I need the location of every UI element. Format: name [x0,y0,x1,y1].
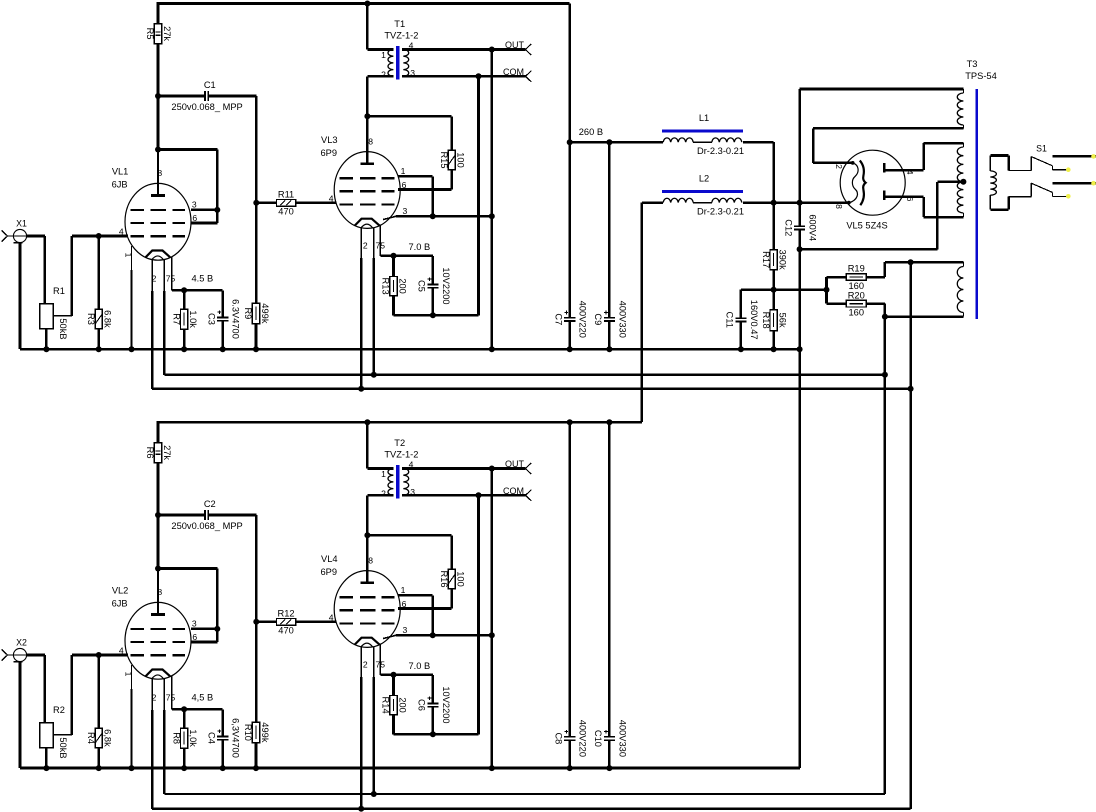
wire HV center tap stub [937,181,963,184]
junction C1/R11 [253,200,259,206]
tube VL3 label [321,135,338,158]
svg-text:R19: R19 [848,264,865,274]
wire R16 bottom to pin 6 [398,589,452,609]
wire 5V winding top to B+ node [800,89,964,203]
wire HV center tap return [800,182,938,250]
svg-text:VL1: VL1 [112,167,129,177]
junction R18-ground [771,346,777,352]
wire COM vertical to cathode return [477,495,480,734]
inductor L2 winding [663,198,742,202]
svg-text:400V330: 400V330 [617,720,627,757]
wire COM [402,494,526,497]
wire R3 bottom lead [97,329,100,349]
junction R6/C2 [155,512,161,518]
capacitor C6 10V2200 [417,686,451,723]
svg-text:250v0.068_ MPP: 250v0.068_ MPP [171,521,242,531]
transformer T3 HV winding upper [957,143,963,182]
wire C11 bottom lead [740,321,743,349]
svg-text:VL2: VL2 [112,586,129,596]
junction pin3 strap [214,626,220,632]
junction anode/screen feed [364,532,370,538]
junction pin3 strap [214,207,220,213]
tube VL4 label [321,554,338,577]
wire X2 to volume pot [27,654,45,657]
wire R7 bottom lead [183,329,186,349]
junction VL5 pin 8 [847,201,851,205]
wire bias divider node [741,288,827,291]
wire B+ top rail [157,2,570,5]
wire VL1 heater pin 2 [152,260,911,389]
svg-text:6.3V4700: 6.3V4700 [231,299,241,339]
svg-text:4: 4 [329,613,334,623]
wire tube pin 3 [191,628,217,631]
junction channel2 rail / C8 [567,419,573,425]
wire C2 right lead [208,515,256,622]
inductor L2 labels [697,174,744,217]
junction pin1/pin3 [430,632,436,638]
svg-text:X2: X2 [16,638,27,648]
wire X1 to volume pot [27,235,45,238]
svg-text:2: 2 [363,660,368,670]
tube VL3 grids [340,178,395,204]
svg-text:3: 3 [403,206,408,216]
junction heater A top channel [882,372,888,378]
svg-text:260 В: 260 В [579,127,603,137]
wire hum-balance bracket [827,277,847,304]
svg-text:C1: C1 [204,80,216,90]
wire mains line 1 [1052,155,1096,158]
junction heater pin7 [371,791,377,797]
resistor R17 390k [761,250,788,271]
junction C3-ground [220,346,226,352]
junction C5 bottom [430,312,436,318]
wire R8 bottom lead [183,748,186,768]
junction C6 bottom [430,731,436,737]
resistor R11 470 [277,189,296,216]
tube VL4 heater [355,638,380,645]
wire R6 top lead [157,422,160,442]
wire mains line 2 [1052,182,1096,185]
svg-text:1.0k: 1.0k [188,310,198,328]
svg-text:470: 470 [278,207,294,217]
svg-text:T3: T3 [967,59,978,69]
wire VL2 pin 1 shield to ground [131,665,133,768]
wire T1 pin 1 to B+ rail [367,4,393,50]
junction R3-ground [96,346,102,352]
junction cathode/R8 [181,706,187,712]
capacitor C4 6,3V4700 [206,718,240,758]
svg-text:1,0k: 1,0k [188,729,198,747]
transformer T3 primary winding [990,156,996,210]
svg-text:160V0.47: 160V0.47 [749,300,759,340]
contact dot pole 2 [1066,194,1071,199]
capacitor C8 400V220 [554,720,588,757]
junction C10-ground [606,765,612,771]
transformer T3 6.3V winding [957,262,963,316]
svg-text:6,8k: 6,8k [103,729,113,747]
svg-text:OUT: OUT [505,40,525,50]
svg-text:8: 8 [834,204,844,209]
junction heater pin2 [358,806,364,812]
connector COM [503,486,531,501]
wire VL5 pin 2 to 5V winding [813,128,963,163]
svg-text:X1: X1 [16,219,27,229]
wire pot bottom to ground bus [45,748,48,768]
resistor R15 100 [439,150,466,170]
potentiometer R1 50kB [40,286,68,339]
wire C5 bottom lead [432,288,435,316]
junction rail/T1 [364,1,370,7]
capacitor C1 250v0.068_ MPP [171,80,242,112]
junction pin3/OUT line [489,632,495,638]
junction cathode/R13 [391,253,397,259]
svg-text:L2: L2 [699,174,709,184]
wire R14 top lead [392,675,395,696]
wire VL1 pin 1 shield to ground [131,246,133,349]
svg-text:1: 1 [401,585,406,595]
junction bracket mid [824,287,830,293]
svg-text:TPS-54: TPS-54 [965,71,997,81]
svg-text:R17: R17 [761,251,771,268]
wire R12 right lead to VL4 pin 4 [296,621,337,624]
junction COM [476,492,482,498]
junction pin3/OUT line [489,213,495,219]
resistor R13 200 [381,277,408,296]
svg-text:C12: C12 [783,219,793,236]
wire T2 pin 1 to B+ rail [367,422,393,468]
svg-text:4: 4 [329,194,334,204]
svg-text:6: 6 [192,213,197,223]
wire pin 1 strap [398,176,433,216]
wire C10 bottom lead [608,740,611,768]
junction C8-ground [567,765,573,771]
wire tube pin 6 [191,641,217,644]
svg-text:27k: 27k [162,26,172,41]
svg-text:400V220: 400V220 [578,301,588,338]
tube VL2 envelope [125,602,191,679]
svg-text:R5: R5 [145,28,155,40]
wire R10 top lead [255,622,258,722]
junction R9-ground [253,346,259,352]
svg-text:C2: C2 [204,499,216,509]
junction R5/C1 [155,93,161,99]
junction pin1-ground [129,765,135,771]
resistor R3 6.8k [86,309,113,329]
wire R13 top lead [392,256,395,277]
wire screen feed to R16 [367,535,451,569]
junction R7-ground [181,346,187,352]
svg-text:75: 75 [166,693,176,703]
tube VL5 anode 2 [884,190,923,200]
junction anode node [155,566,161,572]
junction OUT [489,47,495,53]
svg-text:7.0 В: 7.0 В [408,242,430,252]
svg-text:C7: C7 [554,313,564,325]
transformer T3 label [965,59,997,81]
wire VL4 heater pin 2 [360,647,362,809]
svg-text:R20: R20 [848,290,865,300]
wire OUT vertical to ground [491,469,494,769]
tube VL3 envelope [334,152,400,229]
junction anode/screen feed [364,113,370,119]
svg-text:8: 8 [157,168,162,178]
transformer T2 label [384,438,418,459]
wire C3 top lead [221,290,224,317]
wire COM vertical to cathode return [477,76,480,315]
capacitor C2 250v0.068_ MPP [171,499,242,531]
wire VL3 heater pin 7 [373,228,375,375]
junction ground link top bus [797,346,803,352]
svg-text:R12: R12 [278,608,295,618]
svg-text:1: 1 [401,166,406,176]
wire C8 top lead [568,422,571,737]
svg-text:8: 8 [368,556,373,566]
svg-text:390k: 390k [778,250,788,271]
svg-text:L1: L1 [699,113,709,123]
svg-text:160: 160 [848,308,864,318]
transformer T2 core [396,465,399,498]
wire C6 bottom lead [432,707,435,735]
wire R11 left lead [256,202,276,205]
svg-text:10V2200: 10V2200 [441,686,451,723]
svg-text:T2: T2 [394,438,405,448]
wire anode to grid2 strap [158,96,217,223]
svg-text:250v0.068_ MPP: 250v0.068_ MPP [171,102,242,112]
svg-text:VL4: VL4 [321,554,338,564]
wire COM [402,75,526,78]
junction pot-ground [43,765,49,771]
wire primary bottom lead [990,197,1031,210]
wire OUT [402,467,526,470]
junction OUT-ground [489,346,495,352]
svg-text:R10: R10 [243,724,253,741]
tube VL1 envelope [125,183,191,260]
wire R5 bottom lead [157,44,160,96]
capacitor C7 400V220 [554,301,588,338]
junction HV center tap [960,179,966,185]
tube VL5 envelope [840,150,905,215]
svg-text:27k: 27k [162,445,172,460]
inductor L1 winding [663,138,742,142]
junction grid/R4 [96,652,102,658]
junction VL5 pin 2 [851,161,855,165]
wire R18 top lead [772,290,775,310]
wire C12 bottom lead [798,230,801,250]
tube VL1 pin labels [119,168,198,284]
tube VL4 grids [340,597,395,623]
resistor R7 1.0k [171,309,198,329]
resistor R18 56k [761,310,788,331]
wire VL5 anode 2 to HV winding bottom [924,197,964,217]
junction L1/L2 node [771,200,777,206]
wire R4 top lead [97,655,100,728]
transformer T3 core [975,89,978,319]
wire C4 bottom lead [221,740,224,768]
svg-text:6: 6 [905,197,915,202]
svg-text:2: 2 [834,164,844,169]
wire R9 top lead [255,203,258,303]
wire R5 top lead [157,4,160,24]
svg-text:OUT: OUT [505,459,525,469]
wire ground link to channel 2 [798,249,801,768]
svg-text:10V2200: 10V2200 [441,267,451,304]
switch S1 pole 1 [1031,157,1067,171]
inductor L1 labels [697,113,744,156]
wire pot top lead [44,655,47,723]
capacitor C9 400V330 [593,301,627,338]
junction 260V / C9 [606,139,612,145]
svg-text:3: 3 [192,619,197,629]
svg-text:400V220: 400V220 [578,720,588,757]
wire tube pin 4 left [127,235,129,238]
potentiometer R2 50kB [40,705,68,758]
resistor R5 27k [145,24,172,44]
wire screen feed to R15 [367,116,451,150]
tube VL2 label [112,586,129,609]
junction OUT [489,466,495,472]
svg-text:C4: C4 [206,732,216,744]
wire C7 bottom lead [568,321,571,349]
junction 260V / C7 [567,139,573,145]
switch S1 pole 2 [1031,183,1067,196]
svg-text:6.8k: 6.8k [103,310,113,328]
contact dot mains 1 [1091,154,1096,159]
junction R4-ground [96,765,102,771]
svg-text:6JB: 6JB [112,180,128,190]
wire grid node to tube pin 4 [72,235,127,238]
wire pot wiper [53,655,72,735]
wire R10 bottom lead [255,743,258,768]
wire VL2 heater pin 7 [164,679,885,794]
svg-text:C9: C9 [593,313,603,325]
junction C7-ground [567,346,573,352]
svg-text:VL5 5Z4S: VL5 5Z4S [846,220,887,230]
svg-text:R18: R18 [761,312,771,329]
svg-text:C11: C11 [725,312,735,328]
wire tube pin 4 left [127,654,129,657]
contact dot mains 2 [1091,181,1096,186]
tube VL4 pin labels [329,556,408,670]
inductor L1 core [662,130,743,133]
wire primary top lead [990,156,1031,171]
wire B+ top rail [157,421,570,424]
svg-text:Dr-2.3-0.21: Dr-2.3-0.21 [697,206,744,216]
inductor L2 core [662,190,743,193]
svg-text:C3: C3 [206,313,216,325]
resistor R9 499k [243,303,270,324]
junction pin1/pin3 [430,213,436,219]
svg-text:R7: R7 [171,313,181,325]
wire ground bus [20,767,800,770]
wire R4 bottom lead [97,748,100,768]
svg-text:600V4: 600V4 [808,214,818,241]
svg-text:4: 4 [905,170,915,175]
tube VL1 heater [146,251,171,258]
junction 6.3V bottom / heater feed [882,314,888,320]
wire pin 1 strap [398,595,433,635]
wire R6 bottom lead [157,463,160,515]
contact dot pole 1 [1066,167,1071,172]
svg-text:3: 3 [192,200,197,210]
capacitor C12 600V4 [783,214,817,241]
junction R8-ground [181,765,187,771]
wire R7 top lead [183,290,186,309]
svg-text:100: 100 [456,571,466,587]
tube VL4 cathode [361,643,373,647]
resistor R20 160 [846,290,866,317]
wire pot bottom to ground bus [45,329,48,349]
wire R3 top lead [97,236,100,309]
svg-text:200: 200 [398,278,408,294]
tube VL4 anode [360,537,374,583]
tube VL2 cathode [152,675,164,679]
transformer T1 core [396,46,399,79]
tube VL5 anode 1 [884,163,923,172]
resistor R12 470 [277,608,296,635]
svg-text:R6: R6 [145,447,155,459]
wire R20 right lead [866,304,963,317]
wire C6 top lead [432,675,435,704]
wire rectifier output line [743,201,849,204]
wire T1 pin 2 to anode [367,76,393,117]
svg-text:4.5 В: 4.5 В [191,273,213,283]
junction pot-ground [43,346,49,352]
wire C8 bottom lead [568,740,571,768]
wire L1 output to filter node [743,142,774,202]
svg-text:R1: R1 [53,286,65,296]
tube VL2 pin labels [119,587,198,703]
wire VL5 anode 1 to HV winding top [924,143,964,170]
svg-text:499k: 499k [260,722,270,743]
junction 6.3V top / heater feed [908,259,914,265]
wire R12 left lead [256,621,276,624]
tube VL1 cathode [152,256,164,260]
svg-text:1: 1 [381,50,386,60]
svg-text:C8: C8 [554,732,564,744]
svg-text:100: 100 [456,152,466,168]
junction grid/R3 [96,233,102,239]
svg-text:TVZ-1-2: TVZ-1-2 [384,449,418,459]
wire C9 bottom lead [608,321,611,349]
tube VL1 label [112,167,129,190]
wire 260V line [570,141,663,144]
svg-text:200: 200 [398,697,408,713]
wire pot wiper [53,236,72,316]
svg-text:C5: C5 [417,280,427,292]
resistor R16 100 [439,569,466,589]
wire pin 3 [383,635,492,638]
capacitor C11 160V0.47 [725,300,759,340]
svg-text:50kB: 50kB [58,318,68,339]
wire X1 shell to ground bus [19,243,22,349]
connector COM [503,67,531,82]
wire ground bus [20,348,800,351]
wire VL1 heater pin 7 [164,260,885,375]
svg-text:2: 2 [363,241,368,251]
tube VL5 pin labels [834,164,915,209]
wire C9 top lead [608,142,611,318]
wire C1 right lead [208,96,256,203]
tube VL2 heater [146,670,171,677]
svg-text:T1: T1 [394,19,405,29]
wire B+ rail drop to 260V node [568,4,571,143]
junction rail/T2 [364,419,370,425]
wire VL3 cathode pin 5 [380,225,433,256]
svg-text:R16: R16 [439,570,449,587]
junction C9-ground [606,346,612,352]
junction cathode/R7 [181,287,187,293]
junction OUT-ground [489,765,495,771]
